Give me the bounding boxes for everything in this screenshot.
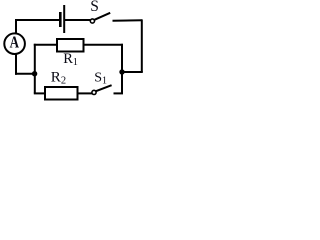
- wire R1 branch left lead: [34, 44, 57, 46]
- switch S1 pivot circle: [92, 90, 96, 94]
- svg-text:R2: R2: [51, 70, 66, 87]
- wire right vertical: [141, 19, 143, 72]
- svg-text:A: A: [10, 32, 20, 51]
- wire right connector to inner loop: [122, 71, 143, 73]
- wire inner-right vertical: [121, 44, 123, 94]
- wire battery to switch S: [65, 19, 90, 21]
- wire switch S to top-right corner: [113, 19, 143, 22]
- wire top-left horizontal: [15, 19, 60, 21]
- node right junction dot: [119, 69, 124, 74]
- svg-text:S1: S1: [94, 70, 107, 86]
- switch S1 blade: [96, 85, 112, 91]
- wire inner-left vertical: [34, 44, 36, 94]
- battery positive plate (long thin): [63, 5, 65, 33]
- battery negative plate (short thick): [59, 12, 62, 27]
- wire R2 to switch S1: [78, 92, 93, 94]
- wire left vertical below ammeter: [15, 54, 17, 75]
- ammeter A circle: [4, 33, 25, 54]
- resistor R1 box: [57, 39, 84, 52]
- svg-text:R1: R1: [63, 51, 78, 68]
- wire switch S1 to inner-right vertical: [114, 92, 124, 94]
- wire R1 branch right lead: [84, 44, 123, 46]
- switch S blade: [94, 13, 110, 20]
- wire left vertical above ammeter: [15, 19, 17, 33]
- switch S pivot circle: [90, 19, 94, 23]
- resistor R2 box: [45, 87, 78, 100]
- node left junction dot: [32, 71, 37, 76]
- wire ammeter to left junction: [15, 73, 35, 75]
- svg-text:S: S: [90, 0, 99, 15]
- wire bottom branch left lead: [34, 92, 46, 94]
